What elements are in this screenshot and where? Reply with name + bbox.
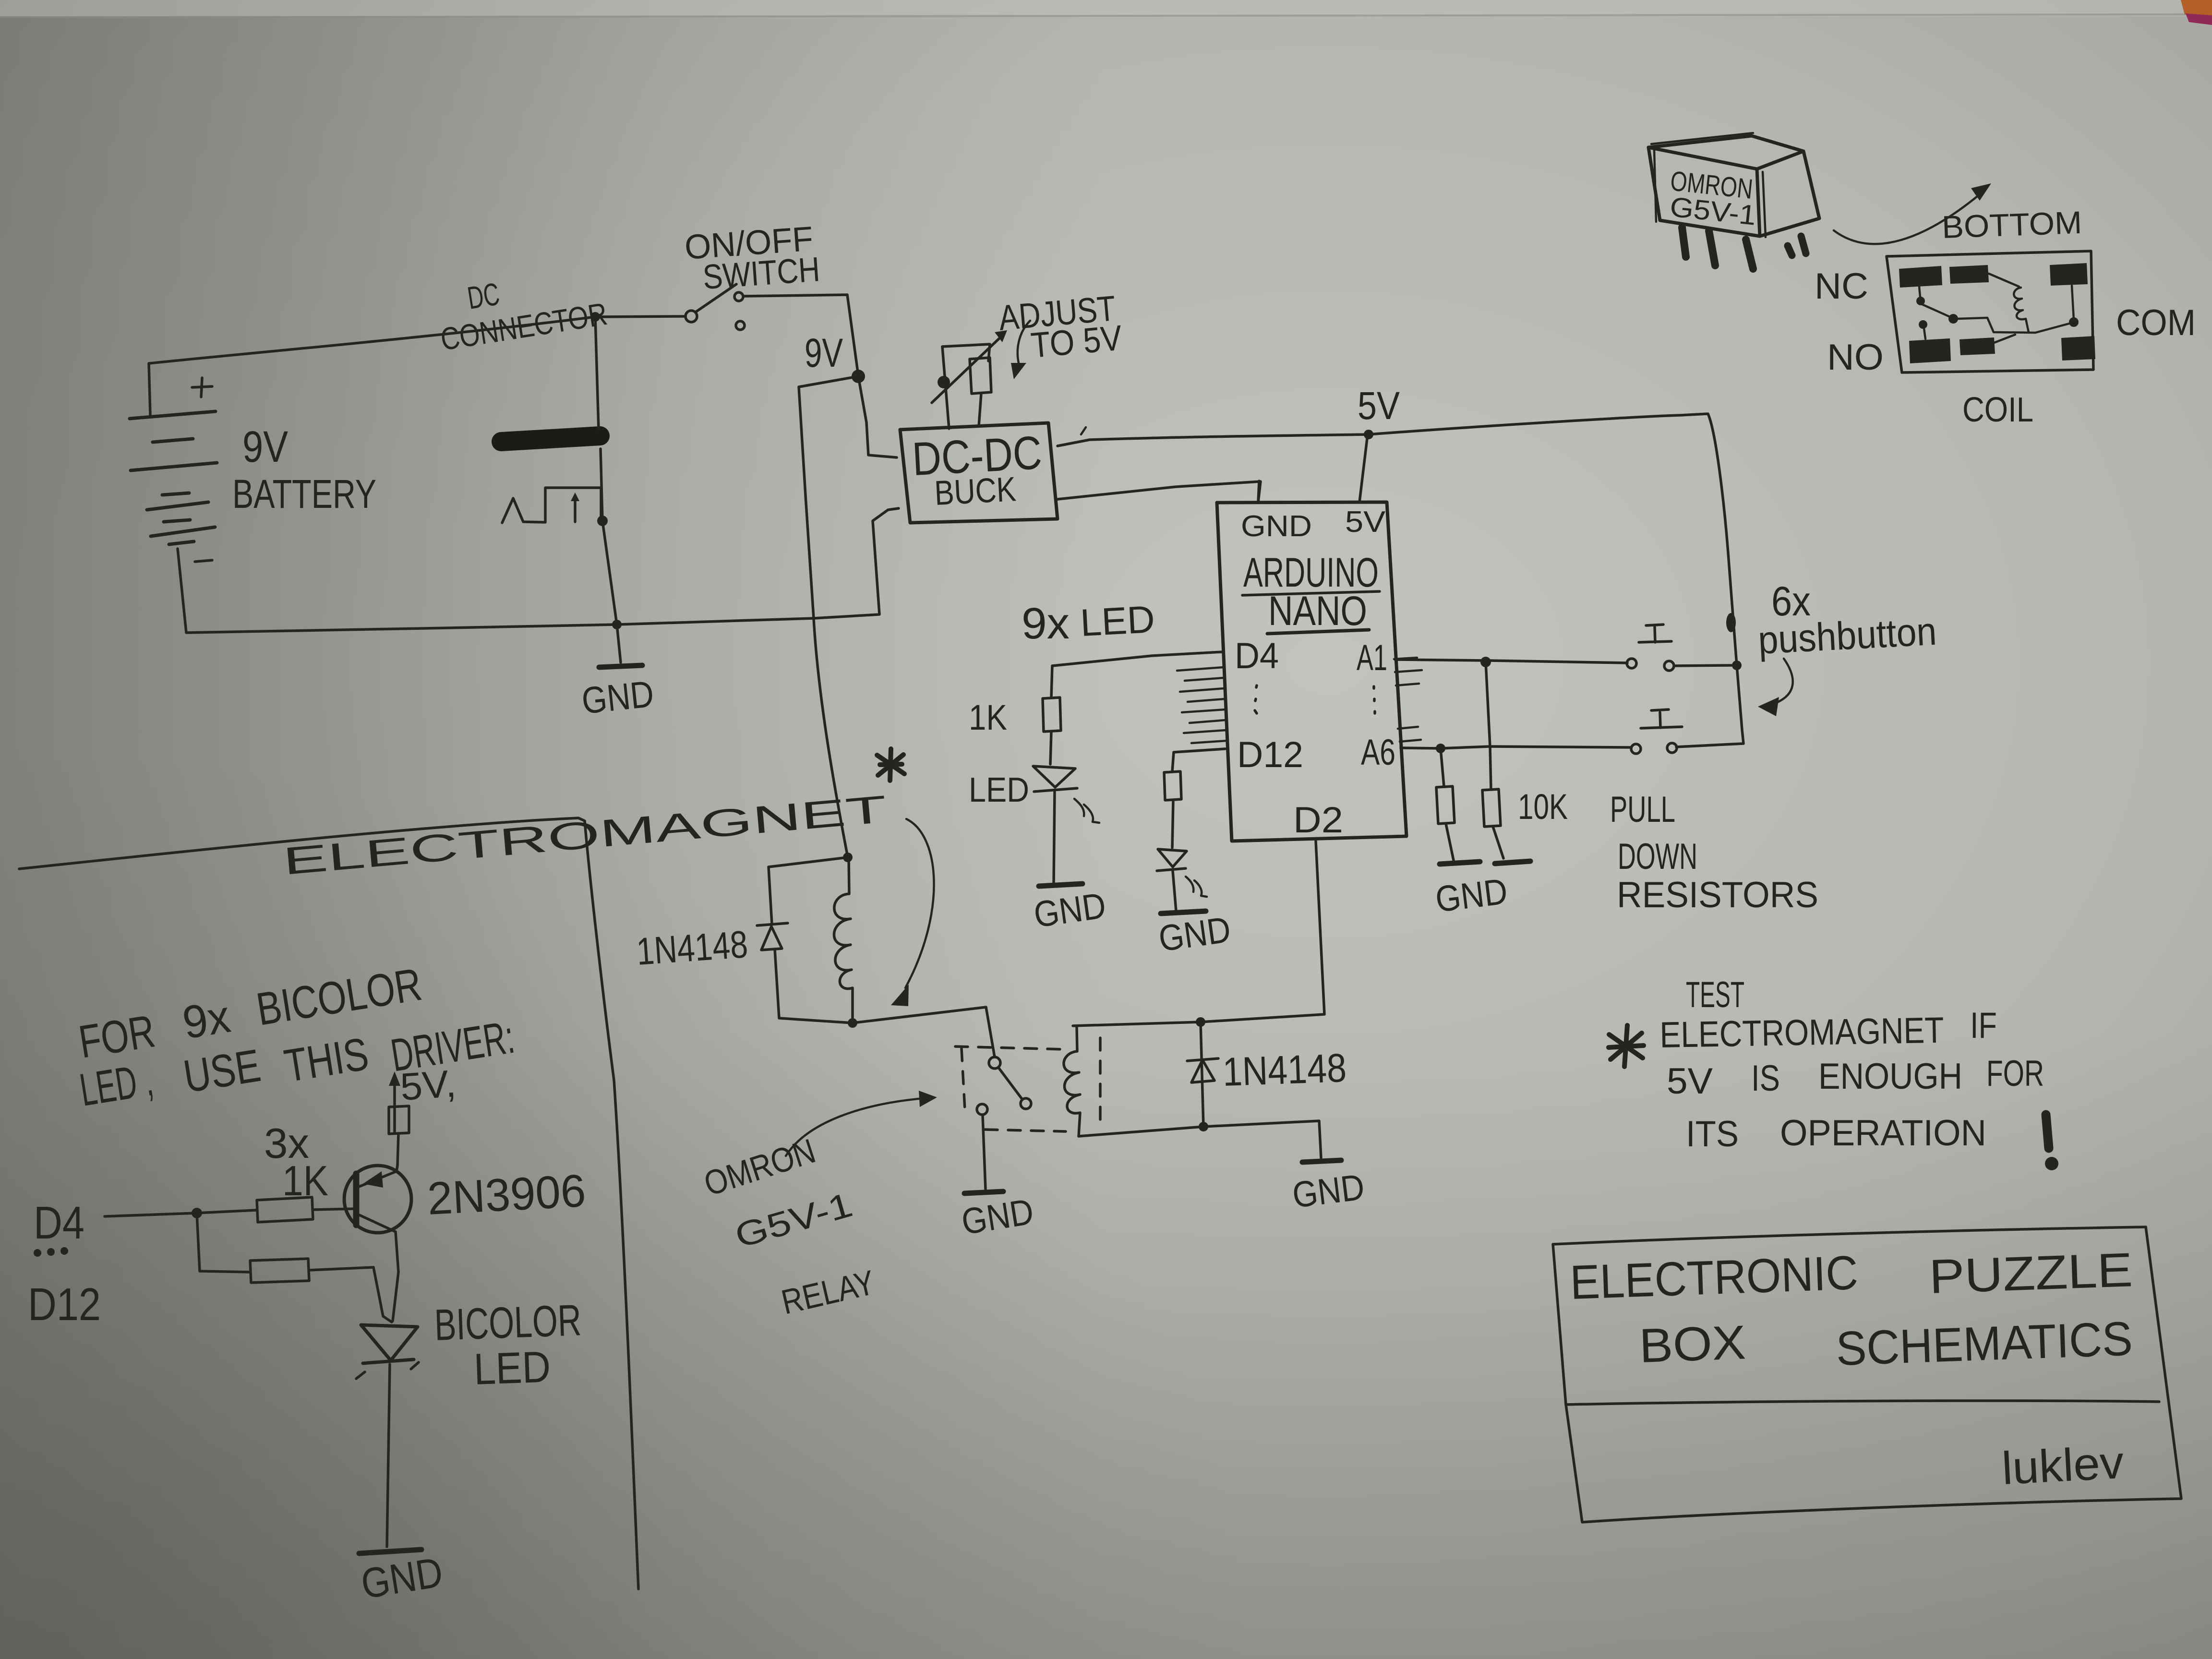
svg-text:COIL: COIL (1962, 391, 2033, 429)
pad coil bottom (1960, 337, 1995, 355)
Q1 collector (356, 1214, 398, 1321)
R4 body (1482, 789, 1501, 827)
electromagnet coil L1 (834, 857, 853, 1022)
title box outline (1553, 1227, 2181, 1522)
wire electromagnet bottom to relay common (853, 1007, 995, 1057)
plate long 2 (131, 463, 217, 470)
wire battery- bottom rail to DC-DC input ground (178, 508, 899, 633)
bottom view switch (1916, 274, 2079, 343)
svg-text:ELECTRONIC: ELECTRONIC (1569, 1246, 1859, 1310)
pad coil top (1949, 265, 1989, 284)
coil pad link (1994, 335, 2015, 343)
node DC connector right pin (597, 516, 608, 526)
underline ARDUINO (1242, 591, 1380, 595)
wire Arduino 5V pin up to 5V rail (1359, 434, 1368, 502)
svg-text:BOTTOM: BOTTOM (1941, 204, 2082, 245)
svg-text:PULL: PULL (1610, 789, 1675, 830)
wire R7 to LED anode (309, 1267, 392, 1322)
LED light arrows (1074, 799, 1099, 823)
svg-text:BOX: BOX (1638, 1315, 1747, 1373)
ground symbol GND (relay coil) (1302, 1160, 1341, 1162)
wire resistor to emitter (397, 1134, 398, 1166)
svg-text:SWITCH: SWITCH (702, 250, 821, 297)
svg-text:2N3906: 2N3906 (426, 1165, 587, 1225)
svg-text:BUCK: BUCK (934, 470, 1017, 513)
svg-text:5V,: 5V, (399, 1062, 457, 1108)
dots ... (34, 1247, 68, 1257)
svg-text:5V: 5V (1667, 1061, 1713, 1102)
wire D4 to base resistor (105, 1210, 256, 1216)
svg-text:ITS: ITS (1686, 1114, 1739, 1154)
R4 top wire (1486, 662, 1491, 789)
relay switch pivot contact (989, 1057, 1000, 1069)
diode D2fw 1N4148 (relay) (1187, 1022, 1218, 1127)
svg-text:GND: GND (1241, 510, 1312, 543)
magenta object top right corner (2186, 13, 2212, 25)
asterisk mark (877, 749, 904, 781)
node battery+/switch junction (590, 312, 600, 322)
svg-text:LED: LED (473, 1342, 551, 1394)
coil feed line (1989, 274, 2019, 287)
relay pin 1 (1682, 228, 1686, 257)
svg-text:9x: 9x (179, 991, 234, 1049)
svg-text:BICOLOR: BICOLOR (433, 1296, 582, 1350)
node pot left leg (938, 376, 950, 388)
svg-text:D4: D4 (34, 1197, 84, 1249)
svg-text:IS: IS (1751, 1058, 1780, 1099)
wire 9V node down to electromagnet (799, 376, 858, 857)
diode bar (757, 923, 788, 926)
svg-text:PUZZLE: PUZZLE (1928, 1243, 2134, 1304)
ground symbol GND (driver) (359, 1550, 421, 1553)
NO stem (1924, 328, 1925, 339)
connector body heavy bar (501, 436, 600, 442)
svg-text:D12: D12 (28, 1279, 101, 1330)
LED2 light arrows (1186, 877, 1207, 897)
NC stem (1919, 287, 1920, 297)
connector plug lever (502, 498, 545, 523)
tick on 5V wire (1081, 427, 1086, 434)
underline NANO (1267, 630, 1369, 634)
3D top face (1648, 136, 1803, 169)
node 5V at buck output (1364, 430, 1373, 439)
pad NO (1909, 338, 1951, 363)
relay switch contact moving end (1021, 1098, 1031, 1109)
resistor R5 (emitter) (389, 1106, 409, 1134)
ground symbol GND (battery) (599, 665, 642, 667)
Q1 emitter arrow (363, 1171, 383, 1188)
wire LED2 to GND (1173, 871, 1176, 911)
R3 bottom wire (1446, 824, 1454, 860)
wire A6 pin to pushbutton 2 (1401, 746, 1631, 748)
paper top edge line (0, 0, 2212, 16)
node A1/10K junction (1480, 657, 1491, 667)
svg-text:A1: A1 (1357, 637, 1387, 678)
svg-text:BATTERY: BATTERY (232, 471, 376, 517)
pot diagonal arrow (932, 335, 1003, 403)
potentiometer RV1 adjust (932, 330, 1007, 429)
switch contact upper (734, 292, 743, 301)
node GND junction on bottom rail (612, 620, 622, 629)
relay pin 4 (1788, 246, 1792, 255)
Q1 circle (344, 1166, 411, 1233)
ground symbol GND (LED2) (1161, 911, 1206, 914)
relay switch lever (998, 1068, 1022, 1098)
diode2 triangle (1191, 1060, 1214, 1082)
svg-text:TEST: TEST (1686, 974, 1744, 1015)
cathode tick (356, 1362, 419, 1379)
ground symbol GND (R4) (1495, 861, 1530, 864)
R3 body (1436, 786, 1455, 824)
resistor R2 (D12 LED) (1164, 771, 1181, 800)
plate short 1 (153, 439, 193, 442)
PB2 left contact (1631, 744, 1641, 754)
common contact path (1958, 318, 2073, 333)
PB1 left contact (1627, 659, 1636, 668)
plate long 4 (151, 527, 215, 536)
svg-text:ENOUGH: ENOUGH (1818, 1056, 1962, 1097)
svg-text:9x: 9x (1022, 599, 1070, 648)
curved arrow 3D to bottom view (1834, 192, 1983, 244)
diode triangle (761, 926, 782, 950)
lever (1922, 304, 1950, 317)
transistor Q1 2N3906 (344, 1166, 411, 1321)
resistor R7 (second) (250, 1259, 309, 1283)
svg-text:D2: D2 (1293, 800, 1343, 841)
pin hatches right A2-A5 (1394, 658, 1422, 742)
bicolor LED D13 (356, 1325, 419, 1379)
ink blob on right 5V rail (1726, 613, 1736, 632)
3D sketch double lines (1651, 133, 1766, 237)
node diode top (1196, 1017, 1205, 1027)
COM stem (2072, 286, 2074, 320)
wire Arduino GND pin up (1258, 481, 1259, 502)
svg-text:pushbutton: pushbutton (1757, 610, 1937, 662)
diode2 wire (1201, 1022, 1203, 1127)
DC-DC buck module U2 box (900, 423, 1058, 523)
wire LED to GND (1054, 792, 1055, 885)
wire A1 pin to pushbutton 1 (1395, 660, 1627, 663)
pot wiper leg to buck (979, 394, 981, 426)
pin dots left (1255, 685, 1257, 713)
LED2 cathode bar (1157, 868, 1186, 871)
node A6/10K junction (1436, 744, 1445, 753)
switch pivot contact (685, 311, 697, 322)
svg-text:NC: NC (1815, 266, 1868, 307)
orange object top right corner (2181, 0, 2212, 16)
svg-text:9V: 9V (805, 330, 843, 375)
wire R6 to base (313, 1209, 355, 1210)
svg-text:LED: LED (969, 771, 1029, 809)
wire GND stub (617, 625, 621, 662)
ground symbol GND (LED1) (1039, 884, 1082, 886)
wire relay bottom (coil to GND net) (1079, 1121, 1321, 1158)
pushbutton SB2 (1631, 709, 1682, 754)
LED D_A indicator (1033, 766, 1099, 823)
node 9V (852, 370, 865, 383)
node D4 branch (192, 1208, 202, 1218)
svg-text:TO 5V: TO 5V (1029, 318, 1124, 365)
svg-text:OPERATION: OPERATION (1780, 1113, 1986, 1154)
PB2 right contact (1667, 743, 1677, 753)
curved arrow to coil (905, 819, 934, 988)
plate long 1 (130, 411, 216, 419)
COM dot (2069, 317, 2079, 327)
wire switch junction down through DC connector to bottom rail (595, 317, 617, 625)
resistor R6 1K (base) (257, 1197, 313, 1222)
bicolor LED triangle (361, 1325, 418, 1360)
wire battery+ to switch junction (149, 317, 595, 415)
adjust curved arrow (1018, 321, 1030, 367)
NC pivot dot (1916, 297, 1925, 305)
PB1 plunger stem (1646, 625, 1663, 642)
inset partition line (19, 818, 638, 1589)
Arduino Nano U1 box (1217, 502, 1407, 841)
LED D_B indicator (1157, 849, 1207, 897)
relay pin 2 (1709, 231, 1715, 265)
curved arrow pushbutton label (1776, 659, 1793, 703)
plate short 4 (169, 541, 194, 544)
node electromagnet bottom (848, 1018, 857, 1028)
node PB1/5V junction (1732, 661, 1742, 670)
svg-text:LED: LED (1079, 598, 1155, 644)
wire resistor2 to LED2 (1172, 800, 1173, 848)
svg-text:GND: GND (1290, 1166, 1367, 1216)
svg-text:IF: IF (1970, 1005, 1997, 1046)
svg-text:GND: GND (580, 673, 656, 722)
connector jack rectangle (545, 488, 601, 522)
svg-text:D12: D12 (1237, 734, 1303, 775)
title box divider (1566, 1401, 2159, 1405)
wire PB1 to 5V rail (1674, 665, 1731, 666)
svg-text:1K: 1K (969, 697, 1007, 737)
LED cathode bar (1034, 788, 1077, 792)
bicolor LED cathode bar (363, 1359, 414, 1363)
diode D3 1N4148 (electromagnet) (757, 923, 788, 950)
bottom view coil (2014, 288, 2029, 332)
wire relay NO contact to GND (983, 1115, 986, 1189)
svg-text:GND: GND (1433, 871, 1510, 920)
resistor R1 1K (1043, 697, 1061, 732)
wire relay top (coil to D2 net) (1073, 841, 1324, 1026)
exclamation mark (2046, 1115, 2049, 1148)
svg-text:5V: 5V (1345, 505, 1386, 539)
switch lever (696, 284, 736, 312)
Q1 emitter (359, 1166, 397, 1187)
LED2 triangle (1158, 849, 1187, 867)
pot top frame (942, 344, 990, 429)
wire junction to pivot (601, 316, 685, 317)
svg-text:luklev: luklev (2000, 1437, 2125, 1494)
svg-text:1K: 1K (282, 1157, 328, 1204)
svg-text:1N4148: 1N4148 (1222, 1045, 1347, 1094)
PB2 plunger bar (1641, 727, 1682, 728)
pin hatches left D5-D11 (1177, 667, 1227, 743)
relay bottom view box (1887, 251, 2093, 373)
wire resistor to LED (1050, 732, 1051, 764)
wire buck lower output to Arduino GND pin (1058, 481, 1261, 502)
svg-text:5V: 5V (1358, 384, 1400, 428)
minus sign (195, 560, 212, 562)
wire switch to 9V node (744, 295, 858, 376)
svg-text:DC: DC (465, 276, 502, 315)
DC connector J1 barrel jack (501, 436, 601, 523)
svg-text:FOR: FOR (1986, 1053, 2044, 1094)
svg-text:NO: NO (1827, 337, 1884, 378)
3D front face (1648, 147, 1760, 236)
Q1 base bar (353, 1174, 360, 1225)
plate short 3 (164, 520, 190, 522)
relay 3D body (1648, 133, 1819, 269)
curved arrow relay label to relay (786, 1098, 924, 1156)
svg-text:10K: 10K (1518, 787, 1568, 827)
pin dots right (1374, 686, 1375, 713)
node electromagnet top (843, 853, 853, 862)
svg-text:RESISTORS: RESISTORS (1617, 875, 1818, 915)
R4 bottom wire (1493, 827, 1503, 858)
wire electromagnet left branch (to 1N4148) (769, 857, 853, 1023)
svg-text:ELECTROMAGNET: ELECTROMAGNET (1659, 1010, 1944, 1056)
svg-text:SCHEMATICS: SCHEMATICS (1835, 1311, 2134, 1375)
pad NC (1899, 266, 1942, 288)
wire 9V node to DC-DC input (858, 376, 897, 457)
svg-text:NANO: NANO (1268, 588, 1367, 634)
plate long 3 (147, 502, 208, 510)
pushbutton SB1 (1627, 625, 1674, 671)
ground symbol GND (R3) (1440, 862, 1480, 864)
PB1 right contact (1664, 661, 1674, 671)
pad COM (2050, 263, 2088, 286)
R3 top wire (1441, 748, 1444, 786)
3D right face (1760, 151, 1819, 236)
wire bicolor LED to GND (387, 1364, 390, 1547)
node diode bottom (1199, 1122, 1208, 1131)
connector center pin (574, 496, 577, 522)
switch SW1 on/off (601, 284, 745, 330)
LED triangle (1033, 766, 1075, 787)
lever end dot (1948, 314, 1958, 324)
plus sign (192, 378, 212, 397)
NO stem dot (1919, 320, 1927, 329)
svg-text:A6: A6 (1361, 732, 1395, 773)
5V supply arrow (393, 1081, 396, 1133)
wire D4 branch down to R7 (197, 1213, 249, 1272)
resistor R4 10K (1482, 662, 1530, 864)
svg-text:1N4148: 1N4148 (635, 923, 749, 973)
wire 5V rail from buck to right side (1058, 414, 1743, 747)
plate short 2 (162, 493, 189, 495)
svg-text:DOWN: DOWN (1618, 836, 1697, 877)
relay pin 5 (1801, 236, 1806, 253)
relay dashed outline (955, 1038, 1100, 1131)
svg-text:D4: D4 (1235, 636, 1279, 676)
pad COM bottom (2061, 336, 2095, 361)
diode2 bar (1187, 1058, 1218, 1061)
switch contact lower (736, 321, 745, 330)
wire D12 pin to second resistor (1172, 749, 1225, 771)
battery BT1 9V (130, 378, 217, 562)
relay coil L2 (1064, 1027, 1080, 1136)
PB2 plunger stem (1651, 709, 1669, 728)
svg-text:COM: COM (2116, 302, 2196, 343)
wire D4 pin to 1K resistor (1051, 652, 1222, 697)
svg-text:9V: 9V (242, 422, 288, 471)
ground symbol GND (relay contact) (964, 1191, 1003, 1193)
pot body (970, 358, 991, 394)
relay switch NO contact (977, 1104, 987, 1115)
resistor R3 10K (1436, 748, 1480, 864)
asterisk (note) (1609, 1025, 1644, 1067)
PB1 plunger bar (1639, 641, 1671, 642)
relay pin 3 (1746, 240, 1753, 269)
